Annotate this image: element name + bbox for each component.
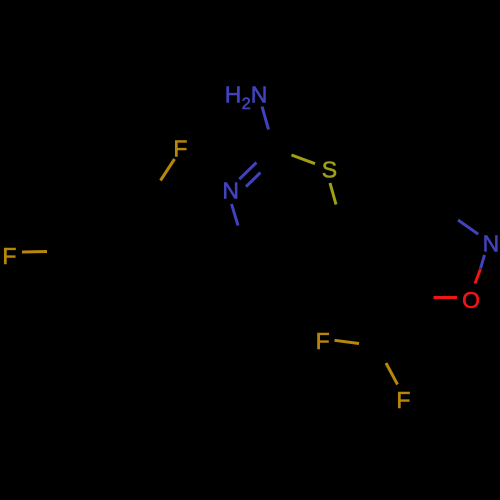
svg-text:F: F bbox=[316, 328, 330, 354]
bond N-O (O half) bbox=[475, 269, 481, 284]
svg-text:S: S bbox=[322, 157, 337, 183]
svg-text:F: F bbox=[396, 387, 410, 413]
bond C-F chf2 right (F half) bbox=[386, 363, 398, 385]
bond H2N-C2 (N half) bbox=[262, 107, 269, 130]
bond C-F chf2 left (F half) bbox=[335, 340, 360, 343]
double bond N=C2 line 2 (N half) bbox=[246, 173, 260, 187]
svg-text:2: 2 bbox=[242, 95, 251, 113]
svg-text:F: F bbox=[173, 136, 187, 162]
double bond N=C2 line 1 (N half) bbox=[239, 163, 256, 180]
bond C-F para (F half) bbox=[22, 250, 47, 254]
bond C3-N isoxazole (N half) bbox=[458, 220, 478, 234]
bond N-C4 (N half) bbox=[232, 204, 239, 226]
svg-text:N: N bbox=[251, 82, 268, 108]
svg-text:N: N bbox=[222, 177, 239, 203]
bond C2-S (S half) bbox=[292, 155, 316, 164]
svg-text:N: N bbox=[483, 230, 500, 256]
svg-text:F: F bbox=[2, 243, 16, 269]
svg-text:O: O bbox=[462, 287, 480, 313]
bond O-C5iso (O half) bbox=[434, 296, 458, 299]
bond S-C5 (S half) bbox=[330, 183, 336, 205]
bond C-F ortho (F half) bbox=[161, 159, 175, 181]
svg-text:H: H bbox=[225, 82, 242, 108]
bond N-O (N half) bbox=[481, 255, 485, 269]
